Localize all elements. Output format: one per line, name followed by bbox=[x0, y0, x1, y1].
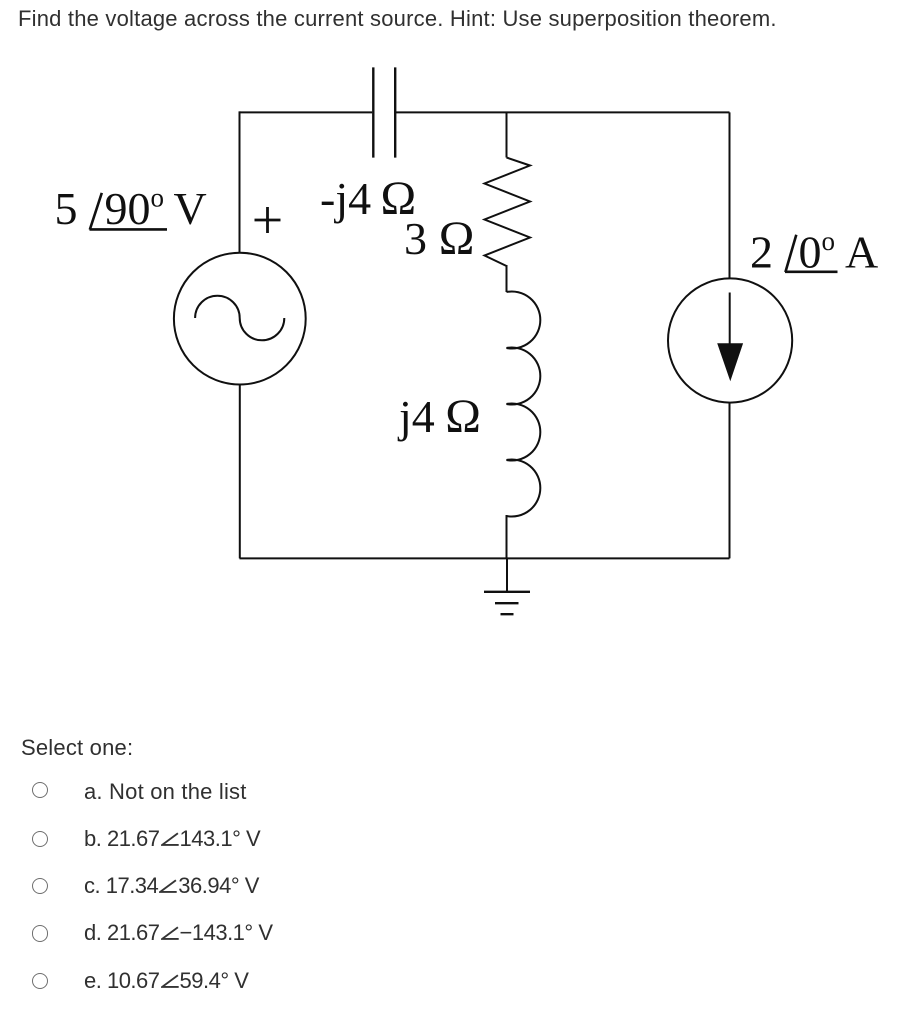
voltage source V1 circle bbox=[174, 253, 306, 385]
svg-text:j4: j4 bbox=[397, 391, 435, 442]
radio c bbox=[32, 878, 48, 894]
svg-text:90: 90 bbox=[105, 183, 151, 234]
current source arrow bbox=[729, 293, 731, 345]
ground bars bbox=[484, 592, 530, 614]
wire bottom bbox=[240, 557, 730, 559]
wire top-left segment bbox=[240, 111, 373, 113]
wire right vertical top bbox=[729, 112, 731, 278]
wire between resistor and inductor bbox=[506, 265, 508, 292]
plus polarity mark bbox=[255, 207, 281, 233]
radio a bbox=[32, 782, 48, 798]
label angle slash (current source) bbox=[785, 235, 796, 272]
label angle underline (current source) bbox=[785, 270, 838, 273]
title bbox=[18, 7, 777, 31]
option c text bbox=[84, 874, 259, 898]
svg-text:o: o bbox=[822, 226, 836, 256]
svg-text:5: 5 bbox=[55, 183, 78, 234]
option b text bbox=[84, 827, 260, 851]
svg-text:-j4: -j4 bbox=[320, 173, 371, 224]
ground stem bbox=[506, 558, 508, 591]
radio e bbox=[32, 973, 48, 989]
wire below inductor bbox=[506, 515, 508, 558]
wire left vertical bbox=[239, 111, 241, 252]
svg-text:V: V bbox=[174, 183, 207, 234]
svg-text:Ω: Ω bbox=[445, 390, 481, 443]
capacitor -j4 ohm plates bbox=[373, 67, 395, 157]
svg-text:A: A bbox=[845, 227, 878, 278]
svg-text:2: 2 bbox=[750, 227, 773, 278]
wire below voltage source bbox=[239, 384, 241, 558]
voltage source sine wave bbox=[195, 296, 284, 341]
option a text bbox=[84, 780, 247, 804]
label angle slash bbox=[90, 193, 102, 230]
svg-text:o: o bbox=[151, 183, 165, 213]
svg-text:0: 0 bbox=[799, 227, 822, 278]
option e text bbox=[84, 969, 248, 993]
current source I1 circle bbox=[668, 278, 792, 402]
radio d bbox=[32, 925, 48, 941]
svg-text:3: 3 bbox=[404, 213, 427, 264]
resistor 3 ohm zigzag bbox=[485, 158, 531, 267]
wire middle branch top bbox=[506, 112, 508, 157]
label angle underline bbox=[90, 228, 168, 231]
wire right vertical bottom bbox=[729, 402, 731, 558]
option d text bbox=[84, 921, 273, 945]
inductor j4 ohm coils bbox=[507, 292, 541, 517]
select one prompt bbox=[21, 736, 133, 760]
circuit schematic bbox=[0, 0, 898, 700]
radio b bbox=[32, 831, 48, 847]
svg-text:Ω: Ω bbox=[439, 212, 475, 265]
wire top-right segment bbox=[395, 111, 729, 113]
